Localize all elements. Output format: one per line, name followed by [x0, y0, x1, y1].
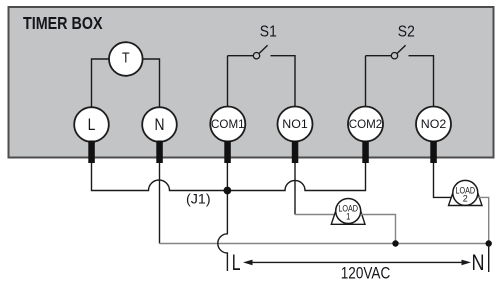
terminal post NO2 [430, 141, 437, 164]
terminal post N [156, 141, 163, 164]
svg-text:NO2: NO2 [421, 117, 447, 131]
wire: LOAD2 to neutral bus [478, 197, 489, 243]
svg-text:S2: S2 [398, 24, 415, 41]
wire: COM2 up to S2 [365, 56, 367, 107]
terminal post COM2 [362, 141, 369, 164]
junction: LOAD1 return [392, 240, 398, 246]
switch S1 [228, 45, 268, 59]
wire: S2 to NO2 [409, 56, 434, 107]
timer motor T [109, 42, 143, 76]
wire: NO2 down [434, 163, 453, 197]
svg-text:2: 2 [463, 193, 468, 203]
wire: L terminal down and right to J1 (hop over N wire) [92, 163, 228, 191]
terminal NO1 [278, 107, 313, 142]
wire: N supply drop [488, 244, 490, 273]
terminal COM1 [210, 107, 245, 142]
wire: COM1 terminal down to J1 and supply L (hop over neutral bus) [218, 163, 228, 271]
wire: T to L [92, 59, 110, 108]
load LOAD2 [449, 180, 483, 205]
wire: T to N [142, 59, 159, 108]
wire: S1 to NO1 [271, 56, 296, 107]
wire: NO1 to LOAD1 [295, 214, 336, 216]
svg-text:COM1: COM1 [211, 117, 245, 131]
dimension arrow 120VAC [243, 260, 471, 266]
wire: J1 right to COM2 (hop over NO1 wire) [227, 163, 365, 191]
junction J1 [224, 187, 232, 195]
timer box enclosure [9, 7, 494, 158]
svg-text:L: L [88, 116, 96, 134]
wire: LOAD1 to neutral bus [361, 215, 396, 244]
terminal COM2 [348, 107, 383, 142]
svg-text:N: N [472, 250, 485, 275]
svg-text:TIMER BOX: TIMER BOX [23, 13, 103, 33]
svg-text:T: T [122, 50, 130, 67]
terminal L [74, 107, 109, 142]
svg-text:(J1): (J1) [186, 191, 211, 207]
svg-text:NO1: NO1 [282, 117, 308, 131]
svg-text:COM2: COM2 [349, 117, 383, 131]
terminal post NO1 [292, 141, 299, 164]
wire: neutral bus (N line) [160, 243, 489, 245]
svg-text:120VAC: 120VAC [341, 265, 391, 283]
wire: NO1 down [294, 163, 296, 215]
svg-text:1: 1 [346, 211, 350, 221]
svg-text:L: L [232, 250, 241, 275]
load LOAD1 [331, 199, 365, 225]
switch S2 [366, 45, 406, 59]
svg-text:S1: S1 [260, 24, 277, 41]
wire: COM1 up to S1 [227, 56, 229, 107]
terminal post COM1 [224, 141, 231, 164]
terminal post L [88, 141, 95, 164]
junction: LOAD2 return at N [486, 240, 492, 246]
svg-text:N: N [155, 116, 165, 134]
terminal NO2 [416, 107, 451, 142]
terminal N [142, 107, 177, 142]
wire: N terminal down [159, 163, 161, 244]
